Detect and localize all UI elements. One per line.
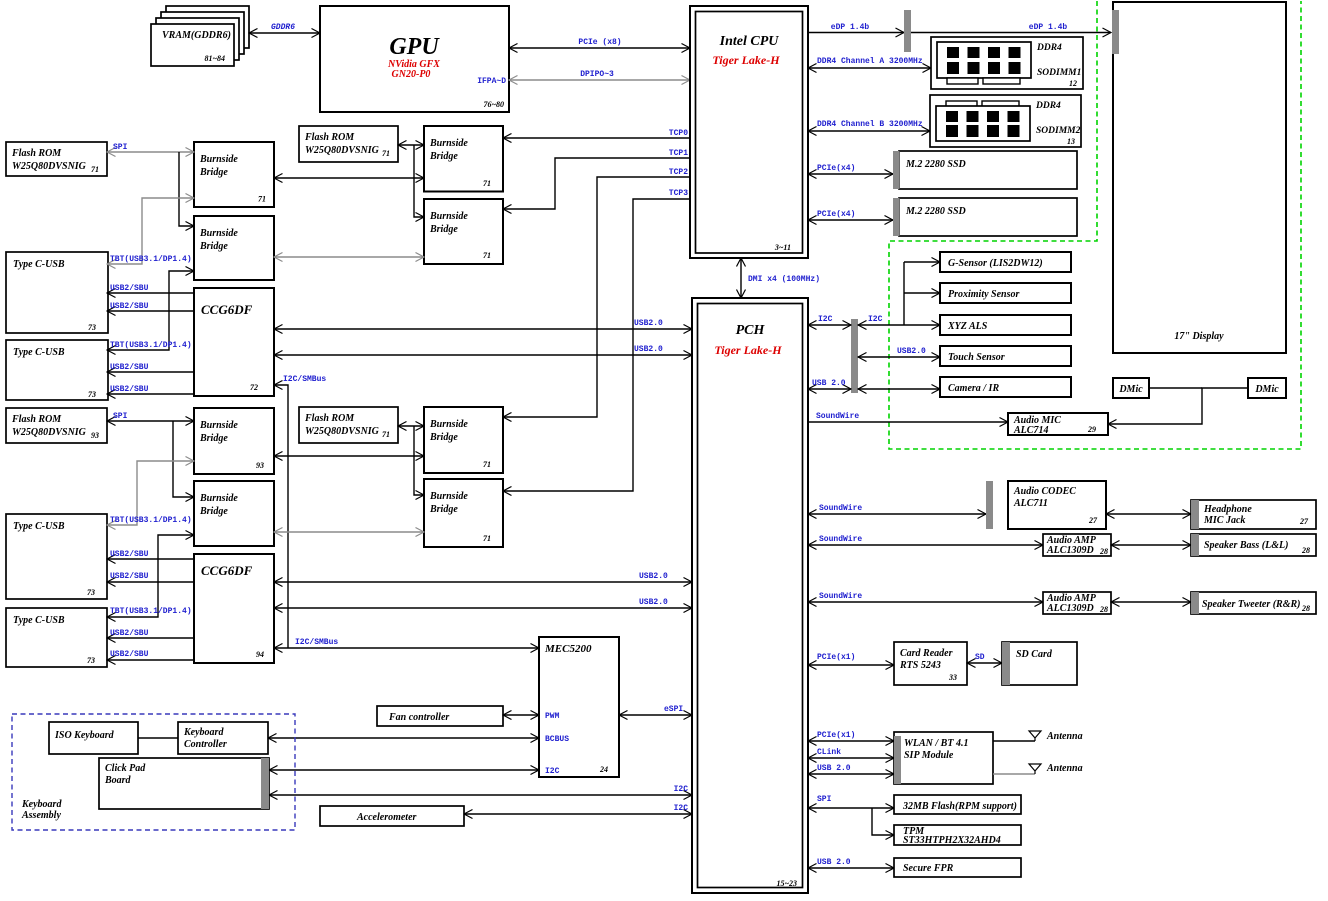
svg-text:81~84: 81~84 bbox=[204, 54, 225, 63]
svg-text:DMI x4 (100MHz): DMI x4 (100MHz) bbox=[748, 275, 820, 284]
svg-text:USB2.0: USB2.0 bbox=[897, 347, 926, 356]
svg-text:12: 12 bbox=[1069, 79, 1077, 88]
svg-text:BCBUS: BCBUS bbox=[545, 735, 569, 744]
svg-text:DMic: DMic bbox=[1118, 384, 1143, 395]
wire SPI branch to TPM bbox=[872, 808, 894, 835]
svg-text:ST33HTPH2X32AHD4: ST33HTPH2X32AHD4 bbox=[903, 835, 1001, 846]
svg-text:Bridge: Bridge bbox=[429, 151, 458, 162]
svg-text:Bridge: Bridge bbox=[199, 167, 228, 178]
svg-text:ALC1309D: ALC1309D bbox=[1046, 603, 1094, 614]
PCH Tiger Lake-H 15~23 bbox=[692, 298, 808, 893]
svg-text:Camera / IR: Camera / IR bbox=[948, 383, 999, 394]
svg-text:TBT(USB3.1/DP1.4): TBT(USB3.1/DP1.4) bbox=[110, 255, 192, 264]
svg-text:SODIMM2: SODIMM2 bbox=[1036, 126, 1081, 136]
wire SoundWire PCH-AMP2 bbox=[808, 592, 1043, 602]
connector bar eDP bbox=[904, 10, 911, 52]
wire SoundWire PCH-AMP1 bbox=[808, 535, 1043, 545]
svg-text:Tiger Lake-H: Tiger Lake-H bbox=[712, 53, 780, 67]
svg-text:Headphone: Headphone bbox=[1203, 504, 1252, 515]
svg-text:SODIMM1: SODIMM1 bbox=[1037, 68, 1081, 78]
svg-text:28: 28 bbox=[1301, 546, 1310, 555]
svg-text:Burnside: Burnside bbox=[199, 420, 238, 431]
svg-text:71: 71 bbox=[91, 165, 99, 174]
Flash ROM W25Q80DVSNIG 71 (lower middle) bbox=[299, 407, 398, 443]
svg-text:Bridge: Bridge bbox=[199, 241, 228, 252]
wire PCIe (x8) GPU-CPU bbox=[509, 38, 690, 48]
sensor Proximity Sensor bbox=[940, 283, 1071, 303]
wire USB 2.0 PCH-bar bbox=[808, 379, 851, 389]
svg-text:W25Q80DVSNIG: W25Q80DVSNIG bbox=[305, 426, 380, 437]
svg-text:MEC5200: MEC5200 bbox=[544, 643, 592, 655]
Speaker Tweeter (R&R) 28 bbox=[1191, 592, 1316, 614]
svg-text:SPI: SPI bbox=[817, 795, 832, 804]
wire FlashROM71mid-BridgeM1 bbox=[398, 144, 424, 146]
wire I2C ClickPad-MEC bbox=[269, 769, 539, 771]
MEC5200 24 bbox=[539, 637, 619, 777]
wire TBT(USB3.1/DP1.4) TypeC1-bridge1 bbox=[107, 198, 194, 264]
wire USB2/SBU TypeC2 b bbox=[107, 385, 194, 394]
svg-text:Antenna: Antenna bbox=[1046, 763, 1083, 774]
Burnside Bridge (lower left cluster 2) bbox=[194, 481, 274, 546]
memory DDR4 SODIMM1 12 bbox=[931, 37, 1083, 89]
svg-text:PCIe(x4): PCIe(x4) bbox=[817, 210, 855, 219]
svg-text:Bridge: Bridge bbox=[429, 432, 458, 443]
svg-text:Bridge: Bridge bbox=[199, 506, 228, 517]
Burnside Bridge 71 (middle 2) bbox=[424, 199, 503, 264]
svg-text:Click Pad: Click Pad bbox=[105, 763, 146, 774]
sensor Touch Sensor bbox=[940, 346, 1071, 366]
wire USB2/SBU TypeC3 b bbox=[107, 572, 194, 582]
svg-text:TCP1: TCP1 bbox=[669, 149, 688, 158]
svg-text:SD Card: SD Card bbox=[1016, 649, 1053, 660]
svg-text:I2C: I2C bbox=[674, 785, 689, 794]
svg-text:73: 73 bbox=[88, 390, 96, 399]
svg-text:71: 71 bbox=[382, 430, 390, 439]
Intel CPU Tiger Lake-H 3~11 bbox=[690, 6, 808, 258]
TPM ST33HTPH2X32AHD4 bbox=[894, 825, 1021, 846]
32MB Flash(RPM support) bbox=[894, 795, 1021, 814]
wire to G-Sensor bbox=[904, 261, 940, 263]
wire USB2/SBU TypeC4 a bbox=[107, 629, 194, 638]
svg-text:93: 93 bbox=[256, 461, 264, 470]
svg-text:Card Reader: Card Reader bbox=[900, 648, 953, 659]
wire SD CardReader-SDCard bbox=[967, 653, 1002, 663]
svg-text:28: 28 bbox=[1099, 605, 1108, 614]
svg-text:SD: SD bbox=[975, 653, 985, 662]
antenna symbol 2 bbox=[1029, 763, 1083, 774]
svg-text:TBT(USB3.1/DP1.4): TBT(USB3.1/DP1.4) bbox=[110, 516, 192, 525]
svg-text:93: 93 bbox=[91, 431, 99, 440]
svg-text:29: 29 bbox=[1087, 425, 1096, 434]
wire I2C bar-XYZ ALS bbox=[858, 315, 940, 325]
wire DMI x4 (100MHz) CPU-PCH bbox=[741, 258, 820, 298]
svg-text:Speaker Tweeter (R&R): Speaker Tweeter (R&R) bbox=[1202, 599, 1301, 610]
Audio AMP ALC1309D 28 (1) bbox=[1043, 534, 1111, 556]
svg-text:72: 72 bbox=[250, 383, 258, 392]
svg-text:17" Display: 17" Display bbox=[1174, 331, 1224, 342]
svg-text:SPI: SPI bbox=[113, 143, 128, 152]
wire GDDR6 VRAM-GPU bbox=[249, 23, 320, 33]
svg-text:Audio CODEC: Audio CODEC bbox=[1013, 486, 1076, 497]
wire I2C PCH-bar bbox=[808, 315, 851, 325]
wire USB2.0 bar-Touch Sensor bbox=[858, 347, 940, 357]
svg-text:Burnside: Burnside bbox=[199, 228, 238, 239]
svg-text:MIC Jack: MIC Jack bbox=[1203, 515, 1245, 526]
Audio MIC ALC714 29 bbox=[1008, 413, 1108, 436]
svg-text:Intel CPU: Intel CPU bbox=[719, 34, 780, 49]
svg-text:73: 73 bbox=[87, 588, 95, 597]
svg-text:Accelerometer: Accelerometer bbox=[356, 812, 417, 823]
Flash ROM W25Q80DVSNIG 71 (middle) bbox=[299, 126, 398, 162]
svg-text:PCIe(x4): PCIe(x4) bbox=[817, 164, 855, 173]
svg-text:USB2/SBU: USB2/SBU bbox=[110, 302, 149, 311]
svg-text:27: 27 bbox=[1088, 516, 1098, 525]
svg-text:Burnside: Burnside bbox=[199, 493, 238, 504]
CCG6DF 94 bbox=[194, 554, 274, 663]
wire bar-Camera bbox=[858, 388, 940, 390]
svg-text:DMic: DMic bbox=[1254, 384, 1279, 395]
svg-text:28: 28 bbox=[1099, 547, 1108, 556]
svg-text:DPIPO~3: DPIPO~3 bbox=[580, 70, 614, 79]
connector bar sensors bbox=[851, 319, 858, 393]
svg-text:WLAN / BT 4.1: WLAN / BT 4.1 bbox=[904, 738, 968, 749]
storage M.2 2280 SSD 2 bbox=[893, 198, 1077, 236]
wire TBT(USB3.1/DP1.4) TypeC4-bridgeL2 bbox=[107, 535, 194, 617]
svg-text:32MB Flash(RPM support): 32MB Flash(RPM support) bbox=[902, 801, 1017, 812]
wire ISOKeyboard-KeyboardController bbox=[138, 737, 178, 739]
wire SoundWire PCH-AudioMIC bbox=[808, 412, 1008, 422]
wire USB 2.0 PCH-SecureFPR bbox=[808, 858, 894, 868]
wire TBT(USB3.1/DP1.4) TypeC2-bridge2 bbox=[107, 271, 194, 350]
svg-text:71: 71 bbox=[483, 460, 491, 469]
wire DMic net to AudioMIC bbox=[1149, 387, 1202, 389]
svg-text:M.2 2280 SSD: M.2 2280 SSD bbox=[905, 159, 966, 170]
svg-text:W25Q80DVSNIG: W25Q80DVSNIG bbox=[305, 145, 380, 156]
wire branch FlashROM71mid to BridgeM2 bbox=[414, 145, 424, 217]
svg-text:CCG6DF: CCG6DF bbox=[201, 563, 253, 578]
svg-text:USB2/SBU: USB2/SBU bbox=[110, 572, 149, 581]
svg-text:G-Sensor (LIS2DW12): G-Sensor (LIS2DW12) bbox=[948, 258, 1043, 269]
svg-text:Burnside: Burnside bbox=[199, 154, 238, 165]
svg-text:TCP3: TCP3 bbox=[669, 189, 688, 198]
wire PCIe(x4) SSD2 bbox=[808, 210, 893, 220]
wire USB2/SBU TypeC2 a bbox=[107, 363, 194, 372]
microphone DMic left bbox=[1113, 378, 1149, 398]
svg-text:Type C-USB: Type C-USB bbox=[13, 521, 65, 532]
svg-text:Type C-USB: Type C-USB bbox=[13, 347, 65, 358]
wire eDP 1.4b CPU to display bbox=[808, 23, 1111, 33]
svg-text:GPU: GPU bbox=[389, 34, 440, 60]
svg-text:Board: Board bbox=[104, 775, 132, 786]
svg-text:DDR4: DDR4 bbox=[1036, 43, 1062, 53]
sensor G-Sensor (LIS2DW12) bbox=[940, 252, 1071, 272]
wire bridge2-bridgeM2 bbox=[274, 256, 424, 258]
wire USB 2.0 PCH-WLAN bbox=[808, 764, 894, 774]
svg-text:Bridge: Bridge bbox=[429, 504, 458, 515]
svg-text:Assembly: Assembly bbox=[21, 810, 61, 821]
svg-text:SIP Module: SIP Module bbox=[904, 750, 954, 761]
wire branch FlashROM71low to BridgeL2 bbox=[414, 426, 424, 495]
svg-text:28: 28 bbox=[1301, 604, 1310, 613]
wire SoundWire PCH-AudioCODEC bbox=[808, 504, 986, 514]
wire PCIe(x1) PCH-CardReader bbox=[808, 653, 894, 665]
wire FlashROM71low-BridgeL1 bbox=[398, 425, 424, 427]
svg-text:13: 13 bbox=[1067, 137, 1075, 146]
svg-text:Proximity Sensor: Proximity Sensor bbox=[948, 289, 1020, 300]
wire USB2/SBU TypeC1 b bbox=[107, 302, 194, 311]
Flash ROM W25Q80DVSNIG 93 bbox=[6, 408, 107, 443]
sensor XYZ ALS bbox=[940, 315, 1071, 335]
svg-text:USB2.0: USB2.0 bbox=[634, 345, 663, 354]
svg-text:ALC711: ALC711 bbox=[1013, 498, 1048, 509]
svg-text:TCP0: TCP0 bbox=[669, 129, 688, 138]
svg-text:USB2/SBU: USB2/SBU bbox=[110, 284, 149, 293]
wire USB2.0 CCG6DF72-PCH a bbox=[274, 319, 692, 329]
wire DPIPO~3 GPU-CPU bbox=[509, 70, 690, 80]
svg-text:IFPA~D: IFPA~D bbox=[477, 77, 506, 86]
svg-text:Burnside: Burnside bbox=[429, 211, 468, 222]
svg-text:DDR4 Channel A 3200MHz: DDR4 Channel A 3200MHz bbox=[817, 57, 923, 66]
svg-text:SoundWire: SoundWire bbox=[819, 535, 862, 544]
Audio CODEC ALC711 27 bbox=[1008, 481, 1106, 529]
svg-text:eDP 1.4b: eDP 1.4b bbox=[1029, 23, 1068, 32]
Type C-USB 73 (3) bbox=[6, 514, 107, 599]
svg-text:eDP 1.4b: eDP 1.4b bbox=[831, 23, 870, 32]
storage M.2 2280 SSD 1 bbox=[893, 151, 1077, 189]
wire I2C Accelerometer-PCH bbox=[464, 804, 692, 814]
wire antenna 2 bbox=[993, 773, 1035, 775]
svg-text:USB 2.0: USB 2.0 bbox=[817, 858, 851, 867]
svg-text:USB2/SBU: USB2/SBU bbox=[110, 650, 149, 659]
svg-text:I2C: I2C bbox=[818, 315, 833, 324]
svg-text:eSPI: eSPI bbox=[664, 705, 683, 714]
svg-text:USB 2.0: USB 2.0 bbox=[812, 379, 846, 388]
svg-text:PCIe(x1): PCIe(x1) bbox=[817, 653, 855, 662]
wire SPI PCH-32MBFlash bbox=[808, 795, 894, 808]
svg-text:Type C-USB: Type C-USB bbox=[13, 615, 65, 626]
svg-text:W25Q80DVSNIG: W25Q80DVSNIG bbox=[12, 161, 87, 172]
wire SPI93 branch to lower bridge bbox=[173, 421, 194, 497]
svg-text:I2C/SMBus: I2C/SMBus bbox=[295, 638, 338, 647]
Burnside Bridge 71 (middle top) bbox=[424, 126, 503, 192]
svg-text:SoundWire: SoundWire bbox=[819, 592, 862, 601]
svg-text:I2C: I2C bbox=[545, 767, 560, 776]
svg-text:Secure FPR: Secure FPR bbox=[903, 863, 954, 874]
svg-text:3~11: 3~11 bbox=[774, 243, 791, 252]
svg-text:DDR4: DDR4 bbox=[1035, 101, 1061, 111]
svg-text:Burnside: Burnside bbox=[429, 419, 468, 430]
svg-text:Speaker Bass (L&L): Speaker Bass (L&L) bbox=[1204, 540, 1288, 551]
wire bridge2L-bridgeL2 bbox=[274, 531, 424, 533]
svg-text:ALC1309D: ALC1309D bbox=[1046, 545, 1094, 556]
Card Reader RTS 5243 33 bbox=[894, 642, 967, 685]
svg-text:SPI: SPI bbox=[113, 412, 128, 421]
Type C-USB 73 (1) bbox=[6, 252, 108, 333]
Click Pad Board bbox=[99, 758, 269, 809]
wire DDR4 Channel A 3200MHz bbox=[808, 57, 931, 68]
Keyboard Controller bbox=[178, 722, 268, 754]
wire TCP3 bbox=[503, 189, 690, 491]
Speaker Bass (L&L) 28 bbox=[1191, 534, 1316, 556]
Fan controller bbox=[377, 706, 503, 726]
svg-text:71: 71 bbox=[483, 179, 491, 188]
wire to Proximity Sensor bbox=[904, 292, 940, 294]
ISO Keyboard bbox=[49, 722, 138, 754]
svg-text:94: 94 bbox=[256, 650, 264, 659]
svg-text:TCP2: TCP2 bbox=[669, 168, 688, 177]
svg-text:Type C-USB: Type C-USB bbox=[13, 259, 65, 270]
svg-text:VRAM(GDDR6): VRAM(GDDR6) bbox=[162, 30, 231, 41]
wire I2C ClickPad-PCH bbox=[269, 785, 692, 795]
wire PCIe(x4) SSD1 bbox=[808, 164, 893, 174]
svg-text:Antenna: Antenna bbox=[1046, 731, 1083, 742]
wire DDR4 Channel B 3200MHz bbox=[808, 120, 930, 131]
SD Card bbox=[1002, 642, 1077, 685]
wire USB2.0 CCG6DF72-PCH b bbox=[274, 345, 692, 355]
svg-text:71: 71 bbox=[382, 149, 390, 158]
svg-text:ISO Keyboard: ISO Keyboard bbox=[54, 730, 115, 741]
svg-text:W25Q80DVSNIG: W25Q80DVSNIG bbox=[12, 427, 87, 438]
Burnside Bridge 71 (lower middle 1) bbox=[424, 407, 503, 473]
svg-text:ALC714: ALC714 bbox=[1013, 425, 1048, 436]
wire SPI branch to bridge 2 bbox=[179, 152, 194, 226]
svg-text:Bridge: Bridge bbox=[199, 433, 228, 444]
Burnside Bridge (left cluster 2) bbox=[194, 216, 274, 280]
Burnside Bridge 71 (left cluster top) bbox=[194, 142, 274, 207]
svg-text:TBT(USB3.1/DP1.4): TBT(USB3.1/DP1.4) bbox=[110, 341, 192, 350]
wire I2C/SMBus CCG6DF72 down bbox=[274, 375, 326, 648]
svg-text:Controller: Controller bbox=[184, 739, 227, 750]
wire bridge1-bridgeM1 bbox=[274, 177, 424, 179]
svg-text:PCIe (x8): PCIe (x8) bbox=[578, 38, 621, 47]
svg-text:Bridge: Bridge bbox=[429, 224, 458, 235]
svg-text:33: 33 bbox=[948, 673, 957, 682]
svg-text:Keyboard: Keyboard bbox=[183, 727, 224, 738]
svg-text:PWM: PWM bbox=[545, 712, 560, 721]
Flash ROM W25Q80DVSNIG 71 (upper left) bbox=[6, 142, 107, 176]
svg-text:I2C/SMBus: I2C/SMBus bbox=[283, 375, 326, 384]
wire TCP0 bbox=[503, 129, 690, 138]
wire CODEC-Headphone bbox=[1106, 513, 1191, 515]
keyboard assembly dashed boundary bbox=[12, 714, 295, 830]
svg-text:73: 73 bbox=[88, 323, 96, 332]
svg-text:SoundWire: SoundWire bbox=[816, 412, 859, 421]
antenna symbol 1 bbox=[1029, 731, 1083, 742]
wire TCP2 bbox=[503, 168, 690, 417]
svg-text:M.2 2280 SSD: M.2 2280 SSD bbox=[905, 206, 966, 217]
svg-text:USB 2.0: USB 2.0 bbox=[817, 764, 851, 773]
wire I2C junction vertical bbox=[903, 262, 905, 325]
svg-text:SoundWire: SoundWire bbox=[819, 504, 862, 513]
svg-text:Flash ROM: Flash ROM bbox=[11, 414, 62, 425]
green dashed panel-assembly boundary bbox=[889, 1, 1301, 449]
svg-text:24: 24 bbox=[599, 765, 608, 774]
svg-text:76~80: 76~80 bbox=[483, 100, 504, 109]
svg-text:I2C: I2C bbox=[674, 804, 689, 813]
svg-text:GN20-P0: GN20-P0 bbox=[392, 69, 431, 80]
wire USB2.0 CCG6DF94-PCH b bbox=[274, 598, 692, 608]
svg-text:USB2.0: USB2.0 bbox=[639, 572, 668, 581]
label Keyboard Assembly bbox=[21, 799, 62, 821]
wire eSPI MEC5200-PCH bbox=[619, 705, 692, 715]
Secure FPR bbox=[894, 858, 1021, 877]
svg-text:USB2/SBU: USB2/SBU bbox=[110, 363, 149, 372]
wire SPI FlashROM93-Bridge93 bbox=[107, 412, 194, 421]
svg-text:Flash ROM: Flash ROM bbox=[11, 148, 62, 159]
svg-text:Touch Sensor: Touch Sensor bbox=[948, 352, 1005, 363]
wire CLink PCH-WLAN bbox=[808, 748, 894, 758]
svg-text:USB2/SBU: USB2/SBU bbox=[110, 629, 149, 638]
wire USB2/SBU TypeC3 a bbox=[107, 550, 194, 559]
svg-text:Keyboard: Keyboard bbox=[21, 799, 62, 810]
svg-text:71: 71 bbox=[483, 534, 491, 543]
svg-text:15~23: 15~23 bbox=[776, 879, 797, 888]
GPU NVidia GFX GN20-P0 bbox=[320, 6, 509, 112]
svg-text:USB2/SBU: USB2/SBU bbox=[110, 385, 149, 394]
svg-text:Burnside: Burnside bbox=[429, 138, 468, 149]
svg-text:71: 71 bbox=[258, 195, 266, 204]
svg-text:Tiger Lake-H: Tiger Lake-H bbox=[714, 343, 782, 357]
wire antenna 1 bbox=[993, 740, 1035, 742]
svg-text:GDDR6: GDDR6 bbox=[271, 23, 295, 32]
svg-text:PCH: PCH bbox=[736, 323, 766, 338]
svg-text:TBT(USB3.1/DP1.4): TBT(USB3.1/DP1.4) bbox=[110, 607, 192, 616]
memory VRAM(GDDR6) stack 81~84 bbox=[151, 6, 249, 66]
Audio AMP ALC1309D 28 (2) bbox=[1043, 592, 1111, 614]
svg-text:Flash ROM: Flash ROM bbox=[304, 413, 355, 424]
microphone DMic right bbox=[1248, 378, 1286, 398]
wire PWM Fan-MEC bbox=[503, 714, 539, 716]
17 inch Display panel bbox=[1112, 2, 1286, 353]
wire I2C/SMBus CCG6DF94-MEC5200 bbox=[274, 638, 539, 648]
wire USB2/SBU TypeC4 b bbox=[107, 650, 194, 660]
Burnside Bridge 93 (lower left cluster) bbox=[194, 408, 274, 474]
svg-text:71: 71 bbox=[483, 251, 491, 260]
wire AMP1-SpeakerBass bbox=[1111, 544, 1191, 546]
wire TBT(USB3.1/DP1.4) TypeC3-bridge93 bbox=[107, 461, 194, 525]
WLAN / BT 4.1 SIP Module bbox=[894, 732, 993, 784]
connector bar Audio CODEC bbox=[986, 481, 993, 529]
wire AMP2-SpeakerTweeter bbox=[1111, 601, 1191, 603]
svg-text:CLink: CLink bbox=[817, 748, 841, 757]
svg-text:27: 27 bbox=[1299, 517, 1309, 526]
svg-text:USB2.0: USB2.0 bbox=[639, 598, 668, 607]
wire USB2/SBU TypeC1 a bbox=[107, 284, 194, 293]
svg-text:USB2/SBU: USB2/SBU bbox=[110, 550, 149, 559]
wire bridge93-bridgeL1 bbox=[274, 455, 424, 457]
svg-text:Fan controller: Fan controller bbox=[388, 712, 449, 723]
Headphone MIC Jack 27 bbox=[1191, 500, 1316, 529]
wire TCP1 bbox=[503, 149, 690, 209]
svg-text:USB2.0: USB2.0 bbox=[634, 319, 663, 328]
memory DDR4 SODIMM2 13 bbox=[930, 95, 1081, 147]
svg-text:RTS 5243: RTS 5243 bbox=[899, 660, 941, 671]
svg-text:CCG6DF: CCG6DF bbox=[201, 302, 253, 317]
sensor Camera / IR bbox=[940, 377, 1071, 397]
svg-text:XYZ ALS: XYZ ALS bbox=[947, 321, 988, 332]
Accelerometer bbox=[320, 806, 464, 826]
wire PCIe(x1) PCH-WLAN bbox=[808, 731, 894, 741]
wire BCBUS KeyboardController-MEC bbox=[268, 737, 539, 739]
svg-text:I2C: I2C bbox=[868, 315, 883, 324]
svg-text:DDR4 Channel B 3200MHz: DDR4 Channel B 3200MHz bbox=[817, 120, 923, 129]
svg-text:Burnside: Burnside bbox=[429, 491, 468, 502]
wire SPI FlashROM71-BurnsideBridge bbox=[107, 143, 194, 152]
Burnside Bridge 71 (lower middle 2) bbox=[424, 479, 503, 547]
svg-text:PCIe(x1): PCIe(x1) bbox=[817, 731, 855, 740]
svg-text:Flash ROM: Flash ROM bbox=[304, 132, 355, 143]
Type C-USB 73 (2) bbox=[6, 340, 108, 400]
